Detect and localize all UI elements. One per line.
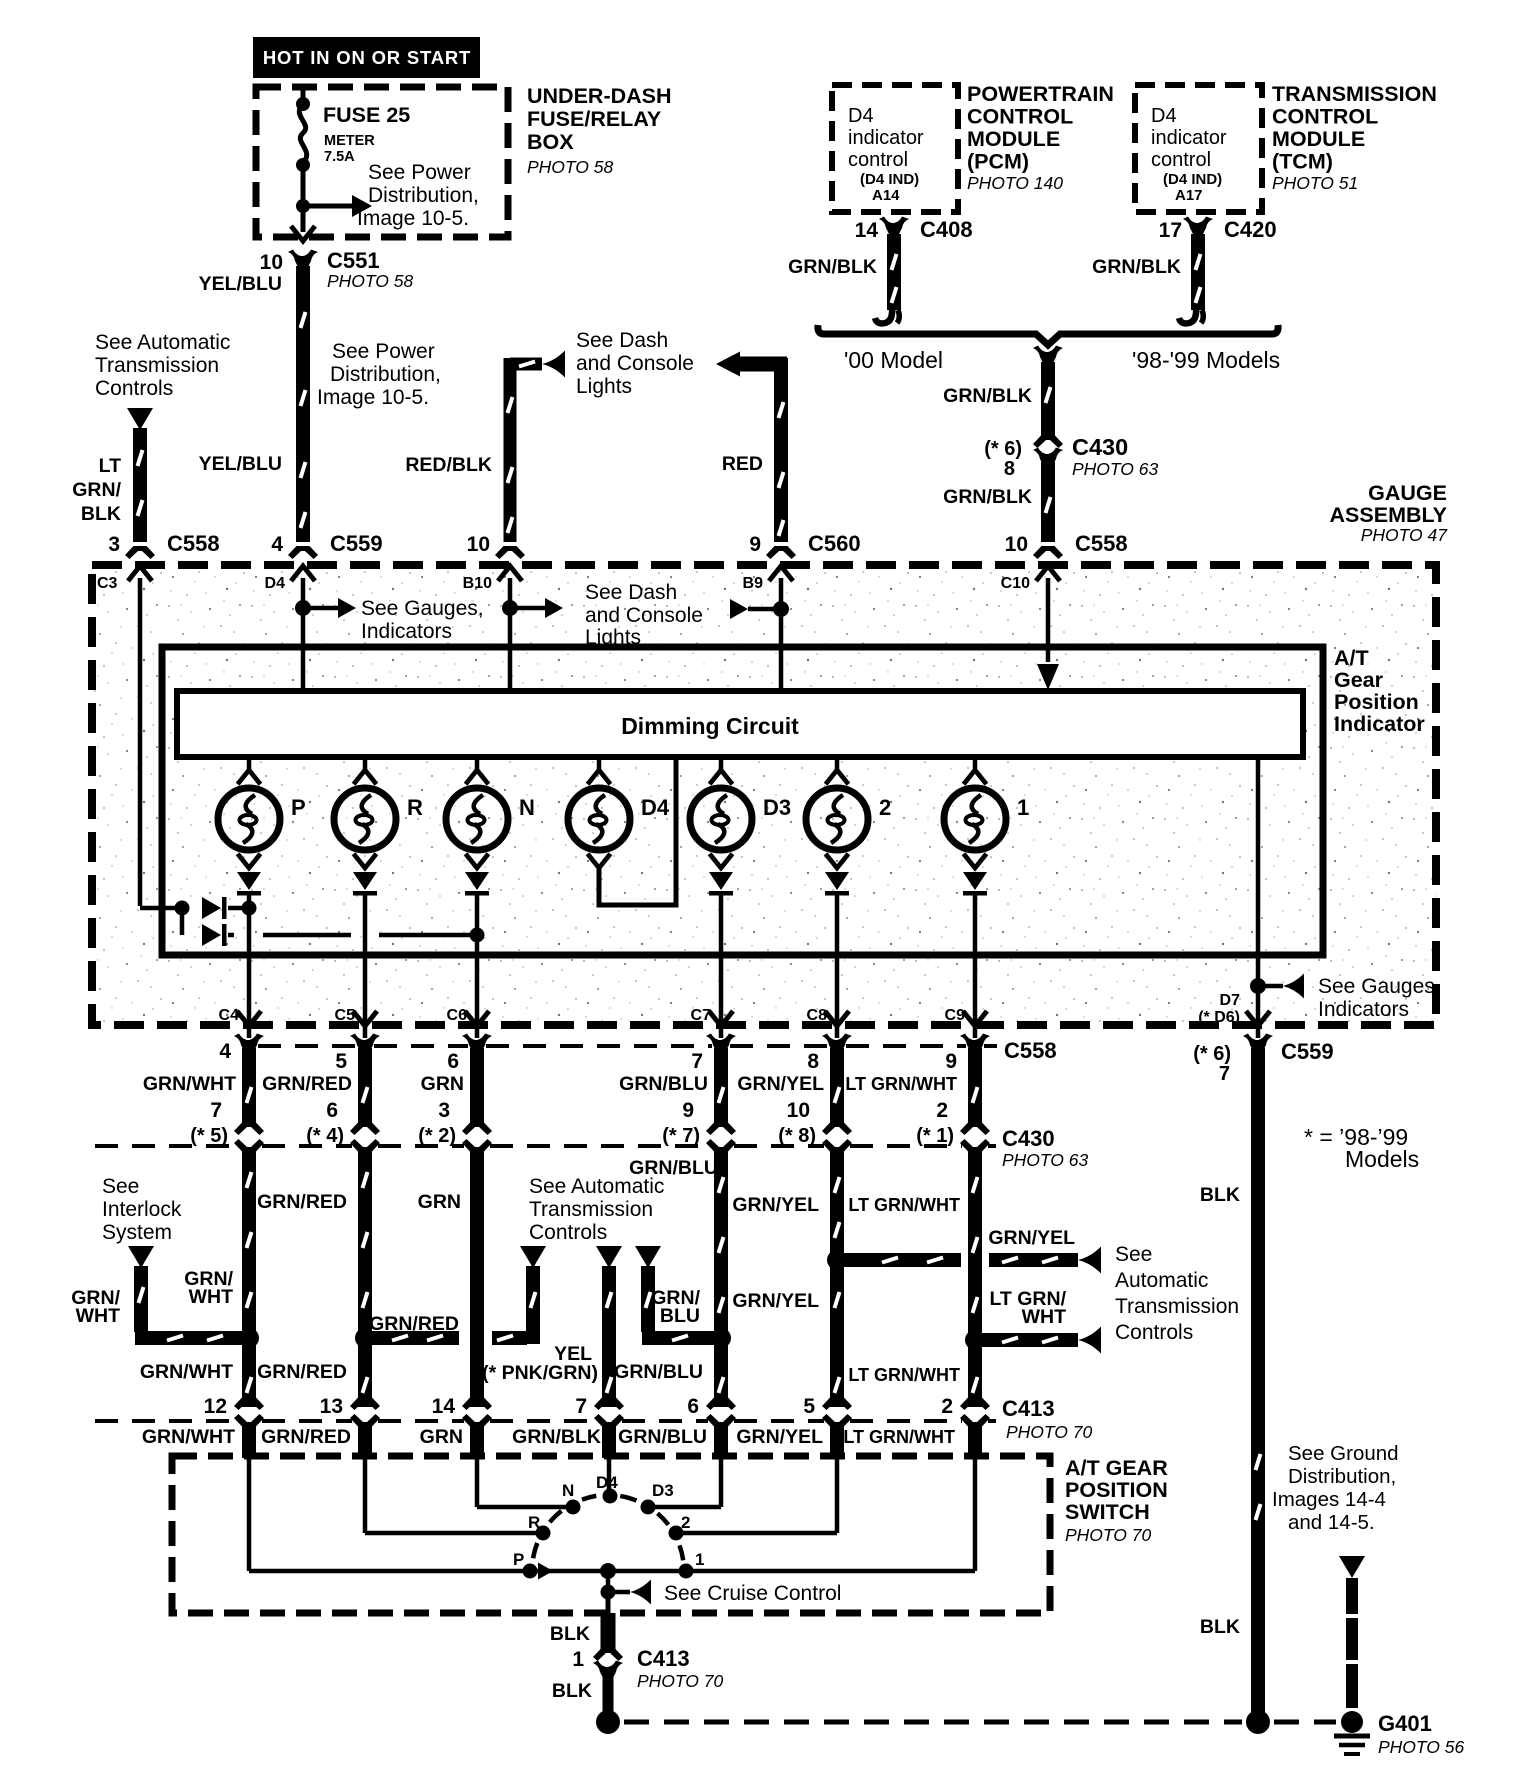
connector C413 pair x=365 [350, 1397, 380, 1427]
svg-text:C5: C5 [335, 1007, 356, 1024]
arrow A/T controls 3 (GRN/BLU) [635, 1246, 661, 1268]
svg-text:GRN/BLK: GRN/BLK [943, 486, 1032, 508]
wire LT GRN/WHT branch right [981, 1333, 1078, 1347]
svg-text:C413: C413 [1002, 1396, 1055, 1421]
svg-text:GRN/BLU: GRN/BLU [618, 1426, 707, 1448]
connector C430 pair x=721 [706, 1122, 736, 1152]
ground dashed wire (bottom) [624, 1720, 1242, 1725]
wire lamp N down [475, 894, 480, 1038]
svg-text:C430: C430 [1002, 1126, 1055, 1151]
svg-text:UNDER-DASH: UNDER-DASH [527, 84, 672, 108]
svg-text:System: System [102, 1221, 172, 1244]
connector row pin 9 C560 [749, 531, 860, 559]
switch wiper hub [600, 1563, 616, 1579]
label C551 / PHOTO 58 [327, 248, 414, 291]
svg-text:GRN/YEL: GRN/YEL [736, 1426, 823, 1448]
switch contact 2 [669, 1513, 691, 1541]
svg-text:Distribution,: Distribution, [368, 184, 479, 207]
svg-text:D7: D7 [1220, 992, 1241, 1009]
wire LT GRN/BLK [133, 428, 147, 542]
svg-text:(* 6): (* 6) [984, 438, 1022, 460]
arrow from automatic transmission controls [127, 408, 153, 430]
note See Dash and Console Lights (top) [576, 329, 694, 398]
svg-text:R: R [528, 1513, 540, 1532]
svg-text:Images 14-4: Images 14-4 [1272, 1488, 1386, 1511]
svg-text:7.5A: 7.5A [324, 149, 355, 165]
wire BLK (C559 to ground) [1251, 1048, 1265, 1712]
TCM D4 indicator control box [1135, 85, 1262, 212]
connector row pin 10 (no name) [467, 533, 525, 559]
svg-text:PHOTO 70: PHOTO 70 [1065, 1525, 1152, 1545]
svg-text:C560: C560 [808, 531, 861, 556]
wire GRN/RED branch [371, 1331, 459, 1345]
pin label C8 + exit chevron [807, 1007, 849, 1026]
svg-text:C9: C9 [945, 1007, 966, 1024]
svg-text:ASSEMBLY: ASSEMBLY [1330, 503, 1447, 527]
wire segment C558-C430 x=975 [968, 1048, 982, 1126]
wire B9 col inside box [779, 578, 784, 692]
svg-text:GRN/BLK: GRN/BLK [788, 256, 877, 278]
svg-text:2: 2 [941, 1395, 953, 1418]
svg-text:'98-'99 Models: '98-'99 Models [1132, 347, 1280, 373]
svg-text:GRN/RED: GRN/RED [369, 1313, 459, 1335]
svg-text:Lights: Lights [576, 375, 632, 398]
svg-text:9: 9 [945, 1050, 957, 1073]
label A/T Gear Position Indicator [1334, 646, 1425, 736]
svg-text:GRN/RED: GRN/RED [257, 1361, 347, 1383]
wire RED/BLK riser [504, 358, 517, 542]
note See Automatic Transmission Controls (right) [1115, 1243, 1239, 1344]
wire RED riser to C560 [774, 358, 788, 542]
svg-text:MODULE: MODULE [1272, 127, 1365, 151]
wire A/T controls branch 1 [526, 1266, 540, 1344]
svg-text:(* 6): (* 6) [1193, 1043, 1231, 1065]
svg-text:BLK: BLK [1200, 1184, 1240, 1206]
wire BLK to ground dot [603, 1674, 614, 1712]
arrow from interlock system [128, 1246, 154, 1268]
module label POWERTRAIN CONTROL MODULE (PCM) [967, 82, 1114, 193]
connector C558 pin 8 [807, 1034, 852, 1074]
label C430 / PHOTO 63 (row) [1002, 1126, 1089, 1170]
svg-text:G401: G401 [1378, 1711, 1432, 1736]
svg-text:9: 9 [682, 1099, 694, 1122]
svg-text:See Dash: See Dash [576, 329, 668, 352]
pin 7 (* 5) labels [190, 1099, 228, 1147]
svg-text:(D4 IND): (D4 IND) [1163, 171, 1222, 188]
pin label B10 + chevron [463, 566, 522, 592]
arrow into G401 lead [1339, 1556, 1365, 1578]
svg-text:GRN/YEL: GRN/YEL [732, 1194, 819, 1216]
arrow to A/T controls (GRN/YEL) [1078, 1247, 1101, 1274]
svg-text:Dimming Circuit: Dimming Circuit [621, 713, 799, 739]
svg-text:6: 6 [447, 1050, 459, 1073]
label GRN/WHT (left of interlock wire) [71, 1287, 120, 1327]
svg-text:GRN/RED: GRN/RED [257, 1191, 347, 1213]
diode feed branch from C3 [140, 906, 180, 911]
svg-text:D4: D4 [848, 105, 874, 127]
wire B10 col inside box [508, 578, 513, 692]
svg-text:POWERTRAIN: POWERTRAIN [967, 82, 1114, 106]
dimming circuit box [177, 691, 1303, 757]
pin 2 (* 1) labels [916, 1099, 954, 1147]
indicator lamp N [446, 757, 535, 868]
junction dot on N wire [470, 928, 485, 943]
svg-text:BLK: BLK [550, 1623, 590, 1645]
svg-text:PHOTO 56: PHOTO 56 [1378, 1737, 1465, 1757]
connector C408 [879, 217, 909, 235]
wire C3 inside box [138, 578, 143, 906]
wiper output to cruise control [606, 1571, 611, 1592]
svg-text:and Console: and Console [576, 352, 694, 375]
connector row pin 3 C558 [108, 531, 219, 559]
label LT GRN/BLK [72, 455, 121, 525]
svg-text:D4: D4 [641, 795, 670, 820]
wire RED horizontal [740, 357, 787, 372]
wire D7 col from dimming circuit [1256, 757, 1261, 1038]
svg-text:Controls: Controls [529, 1221, 607, 1244]
fuse lower node dot [296, 158, 310, 172]
diode below lamp R [353, 872, 377, 896]
note See Power Distribution Image 10-5 (mid) [317, 340, 441, 409]
svg-text:RED: RED [722, 453, 763, 475]
label GRN/WHT (right of interlock wire) [184, 1268, 233, 1308]
svg-text:LT: LT [99, 455, 121, 477]
label GAUGE ASSEMBLY [1330, 481, 1449, 545]
ground G401 symbol [1334, 1734, 1370, 1739]
connector C559 (bottom row) [1243, 1034, 1273, 1052]
connector C413 pair x=975 [960, 1397, 990, 1427]
junction dot to power distribution arrow [296, 199, 310, 213]
wire A/T controls branch 3 [641, 1266, 655, 1332]
indicator lamp P [218, 757, 306, 868]
wire YEL (* PNK/GRN) [602, 1266, 616, 1407]
label C413 / PHOTO 70 (bottom) [637, 1646, 724, 1691]
connector C430 row dashed line [95, 1144, 996, 1148]
wire stub into switch box x=837 [830, 1426, 844, 1458]
svg-text:Distribution,: Distribution, [1288, 1465, 1396, 1488]
svg-text:SWITCH: SWITCH [1065, 1500, 1150, 1524]
note See Interlock System [102, 1175, 182, 1244]
svg-text:GRN/BLU: GRN/BLU [614, 1361, 703, 1383]
svg-text:See Gauges,: See Gauges, [361, 597, 484, 620]
svg-text:See: See [1115, 1243, 1152, 1266]
connector stub below bracket [1033, 346, 1063, 364]
junction dot GRN/BLU [711, 1328, 731, 1348]
diode below lamp 2 [825, 872, 849, 896]
svg-text:LT GRN/WHT: LT GRN/WHT [843, 1427, 955, 1447]
svg-text:13: 13 [320, 1395, 343, 1418]
wire YEL/BLU (C551 to C559) [296, 266, 310, 542]
svg-text:PHOTO 70: PHOTO 70 [1006, 1422, 1093, 1442]
svg-text:GRN/RED: GRN/RED [261, 1426, 351, 1448]
arrow A/T controls 1 [520, 1246, 546, 1268]
connector row pin 10 C558 [1005, 531, 1128, 559]
svg-text:YEL/BLU: YEL/BLU [199, 453, 282, 475]
svg-text:control: control [1151, 149, 1211, 171]
wire from box top to fuse [301, 90, 306, 104]
wire GRN mid (solid) [470, 1150, 484, 1407]
svg-text:See Automatic: See Automatic [529, 1175, 664, 1198]
ground junction dot (switch) [596, 1710, 620, 1734]
junction dot LT GRN/WHT [965, 1330, 985, 1350]
svg-text:P: P [291, 795, 306, 820]
svg-text:C4: C4 [219, 1007, 240, 1024]
wire lamp R down [363, 894, 368, 1038]
indicator lamp D3 [690, 757, 791, 868]
svg-text:PHOTO 140: PHOTO 140 [967, 173, 1063, 193]
input arrow at B9 [730, 599, 748, 619]
svg-text:GRN/BLK: GRN/BLK [1092, 256, 1181, 278]
connector C420 [1183, 217, 1213, 235]
svg-text:GRN/YEL: GRN/YEL [732, 1290, 819, 1312]
svg-text:WHT: WHT [189, 1286, 233, 1308]
svg-text:R: R [407, 795, 423, 820]
module label TRANSMISSION CONTROL MODULE (TCM) [1272, 82, 1437, 193]
label (* 6) 8 [984, 438, 1022, 480]
svg-text:12: 12 [204, 1395, 227, 1418]
note See Dash and Console Lights (in box) [585, 581, 703, 649]
svg-text:C559: C559 [330, 531, 383, 556]
wire segment C558-C430 x=721 [714, 1048, 728, 1126]
svg-text:PHOTO 47: PHOTO 47 [1361, 525, 1449, 545]
svg-text:N: N [519, 795, 535, 820]
svg-text:D4: D4 [1151, 105, 1177, 127]
svg-text:C413: C413 [637, 1646, 690, 1671]
svg-text:Transmission: Transmission [95, 354, 219, 377]
svg-text:PHOTO 70: PHOTO 70 [637, 1671, 724, 1691]
svg-text:Image 10-5.: Image 10-5. [317, 386, 429, 409]
box title UNDER-DASH FUSE/RELAY BOX [527, 84, 672, 177]
svg-text:POSITION: POSITION [1065, 1478, 1168, 1502]
svg-text:7: 7 [210, 1099, 222, 1122]
G401 dashed lead [1346, 1578, 1358, 1614]
svg-text:PHOTO 63: PHOTO 63 [1002, 1150, 1089, 1170]
pin 10 (* 8) labels [778, 1099, 816, 1147]
svg-text:1: 1 [1017, 795, 1029, 820]
switch wire to D4 contact [607, 1458, 612, 1490]
note See Automatic Transmission Controls (top left) [95, 331, 230, 400]
svg-text:17: 17 [1159, 219, 1182, 242]
svg-text:C3: C3 [97, 575, 118, 592]
wire GRN/YEL mid [830, 1150, 844, 1407]
svg-text:C8: C8 [807, 1007, 828, 1024]
svg-text:and Console: and Console [585, 604, 703, 627]
label C430 / PHOTO 63 (top) [1072, 434, 1159, 479]
connector C413 pair x=609 [594, 1397, 624, 1427]
svg-text:C7: C7 [691, 1007, 712, 1024]
pin label C9 + exit chevron [945, 1007, 987, 1026]
svg-text:D4: D4 [265, 575, 286, 592]
svg-text:Gear: Gear [1334, 668, 1384, 692]
svg-text:10: 10 [1005, 533, 1028, 556]
pin label C7 + exit chevron [691, 1007, 733, 1026]
indicator lamp R [334, 757, 423, 868]
wire fuse to box bottom [301, 165, 306, 232]
pin label C6 + exit chevron [447, 1007, 489, 1026]
svg-text:3: 3 [438, 1099, 450, 1122]
svg-text:'00 Model: '00 Model [844, 347, 943, 373]
connector C413 (bottom) [593, 1648, 623, 1661]
pin label C4 + exit chevron [219, 1007, 261, 1026]
wire lamp 1 down [973, 894, 978, 1038]
note See Power Distribution Image 10-5 (in box) [357, 161, 479, 230]
big arrow from dash and console lights [716, 352, 740, 377]
svg-text:C430: C430 [1072, 434, 1128, 460]
svg-text:Position: Position [1334, 690, 1419, 714]
wire segment C558-C430 x=365 [358, 1048, 372, 1126]
diode below lamp D3 [709, 872, 733, 896]
wire GRN/WHT mid [242, 1150, 256, 1407]
note See Gauges Indicators (right) [1318, 975, 1441, 1021]
svg-text:C10: C10 [1001, 575, 1030, 592]
label C413 / PHOTO 70 (row) [1002, 1396, 1093, 1442]
svg-text:C6: C6 [447, 1007, 468, 1024]
switch contact R [528, 1513, 551, 1541]
svg-text:See Gauges,: See Gauges, [1318, 975, 1441, 998]
wire GRN/RED mid [358, 1150, 372, 1407]
PCM box text [848, 105, 924, 204]
gauge assembly box fill [92, 565, 1436, 1025]
svg-text:See: See [102, 1175, 139, 1198]
model selection bracket [818, 325, 1278, 345]
svg-text:See Automatic: See Automatic [95, 331, 230, 354]
svg-text:6: 6 [687, 1395, 699, 1418]
arrow to See Power Distribution [308, 204, 352, 209]
junction dot GRN/YEL [827, 1250, 847, 1270]
svg-text:PHOTO 51: PHOTO 51 [1272, 173, 1358, 193]
junction dot GRN/RED [355, 1328, 375, 1348]
svg-text:D4: D4 [596, 1473, 618, 1492]
wire lamp P down [247, 894, 252, 1038]
junction dot GRN/WHT [239, 1328, 259, 1348]
wire stub into switch box x=609 [602, 1426, 616, 1458]
svg-text:CONTROL: CONTROL [967, 105, 1073, 129]
ground G401 dot [1341, 1711, 1363, 1733]
wire C10 col inside box [1046, 578, 1051, 662]
switch contact 1 [679, 1550, 705, 1579]
diode below lamp 1 [963, 872, 987, 896]
svg-text:A/T GEAR: A/T GEAR [1065, 1456, 1168, 1480]
svg-text:Interlock: Interlock [102, 1198, 182, 1221]
wire segment C558-C430 x=477 [470, 1048, 484, 1126]
under-dash fuse/relay box [256, 87, 508, 237]
svg-text:YEL/BLU: YEL/BLU [199, 273, 282, 295]
svg-text:METER: METER [324, 133, 375, 149]
svg-text:GRN/RED: GRN/RED [262, 1073, 352, 1095]
svg-text:B9: B9 [743, 575, 764, 592]
note * = 98-99 models [1304, 1124, 1419, 1172]
svg-text:(* 8): (* 8) [778, 1125, 816, 1147]
svg-text:GRN/YEL: GRN/YEL [737, 1073, 824, 1095]
wire diode b to N (with jump gaps) [228, 933, 234, 938]
wire segment C558-C430 x=249 [242, 1048, 256, 1126]
svg-text:PHOTO 58: PHOTO 58 [327, 271, 414, 291]
connector C413 pair x=721 [706, 1397, 736, 1427]
svg-text:BLK: BLK [1200, 1616, 1240, 1638]
svg-text:Automatic: Automatic [1115, 1269, 1208, 1292]
svg-text:GRN/YEL: GRN/YEL [988, 1227, 1075, 1249]
wire lamp 2 down [835, 894, 840, 1038]
diode below lamp N [465, 872, 489, 896]
connector C558 pin 6 [447, 1034, 492, 1074]
wire GRN/BLK from TCM [1191, 234, 1205, 310]
switch contact P [513, 1550, 538, 1579]
svg-text:D3: D3 [763, 795, 791, 820]
rotary switch arc [533, 1496, 683, 1560]
switch wire to 1 contact [973, 1458, 978, 1571]
svg-text:(* 2): (* 2) [418, 1125, 456, 1147]
svg-text:LT GRN/WHT: LT GRN/WHT [848, 1365, 960, 1385]
wire GRN/BLK to C430 [1041, 362, 1055, 437]
svg-text:HOT IN ON OR START: HOT IN ON OR START [263, 47, 471, 68]
connector C558 pin 4 [219, 1034, 264, 1064]
svg-text:See Power: See Power [332, 340, 435, 363]
svg-text:Indicator: Indicator [1334, 712, 1425, 736]
svg-text:RED/BLK: RED/BLK [405, 454, 492, 476]
diode D-a (to P) [202, 897, 244, 919]
svg-text:N: N [562, 1481, 574, 1500]
svg-text:PHOTO 58: PHOTO 58 [527, 157, 614, 177]
wire BLK below switch [601, 1613, 616, 1650]
PCM D4 indicator control box [832, 85, 958, 212]
pin label C10 + chevron [1001, 566, 1060, 592]
ground junction dot (BLK col) [1246, 1710, 1270, 1734]
svg-text:See Dash: See Dash [585, 581, 677, 604]
svg-text:C558: C558 [1004, 1038, 1057, 1063]
pin 9 (* 7) labels [662, 1099, 700, 1147]
svg-text:C558: C558 [1075, 531, 1128, 556]
svg-text:CONTROL: CONTROL [1272, 105, 1378, 129]
label (* 6) 7 (C559) [1193, 1043, 1231, 1085]
svg-text:FUSE 25: FUSE 25 [323, 103, 410, 127]
svg-text:C420: C420 [1224, 217, 1277, 242]
svg-text:C408: C408 [920, 217, 973, 242]
switch wire to D3 contact [719, 1458, 724, 1507]
connector C430 pair x=365 [350, 1122, 380, 1152]
connector C558 row dashed line [258, 1044, 997, 1048]
switch wire to 2 contact [835, 1458, 840, 1533]
svg-text:8: 8 [1004, 458, 1015, 480]
svg-text:8: 8 [807, 1050, 819, 1073]
svg-text:BOX: BOX [527, 130, 574, 154]
pin 3 (* 2) labels [418, 1099, 456, 1147]
svg-text:control: control [848, 149, 908, 171]
svg-text:GRN: GRN [420, 1426, 463, 1448]
connector C558 pin 7 [691, 1034, 736, 1074]
svg-text:BLU: BLU [660, 1305, 700, 1327]
power label HOT IN ON OR START [253, 37, 480, 78]
junction + arrow See Dash (B10 col) [502, 600, 518, 616]
svg-text:BLK: BLK [552, 1680, 592, 1702]
svg-text:6: 6 [326, 1099, 338, 1122]
pin label D7 (* D6) [1198, 992, 1240, 1026]
wire stub into switch box x=477 [470, 1426, 484, 1458]
wire stub into switch box x=721 [714, 1426, 728, 1458]
wire GRN/BLK C430 to C558 [1041, 462, 1055, 542]
connector C430 pair x=975 [960, 1122, 990, 1152]
svg-text:Indicators: Indicators [361, 620, 452, 643]
svg-text:(PCM): (PCM) [967, 150, 1029, 174]
connector C430 (top) [1033, 435, 1063, 448]
svg-text:P: P [513, 1550, 524, 1569]
hook end of TCM wire [1179, 308, 1196, 323]
svg-text:C551: C551 [327, 248, 380, 273]
svg-text:(* PNK/GRN): (* PNK/GRN) [482, 1362, 598, 1384]
pin label C5 + exit chevron [335, 1007, 377, 1026]
switch wire to N contact [475, 1458, 480, 1507]
wiper wire down through box [606, 1592, 611, 1614]
connector C413 pair x=249 [234, 1397, 264, 1427]
